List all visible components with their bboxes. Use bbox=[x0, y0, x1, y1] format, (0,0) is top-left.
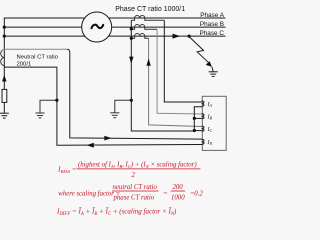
wire resistor to ground bbox=[3, 102, 5, 113]
relay winding IA bbox=[202, 101, 204, 106]
wire ground2 tap bbox=[40, 100, 57, 113]
svg-text:Phase CT ratio 1000/1: Phase CT ratio 1000/1 bbox=[115, 6, 185, 13]
node star junction phase B bbox=[3, 26, 6, 29]
svg-text:where scaling factor =: where scaling factor = bbox=[58, 191, 120, 198]
wire IN inner from box corner bbox=[67, 49, 202, 139]
wire phase C line bbox=[4, 35, 225, 37]
CT B left tail bbox=[131, 27, 134, 29]
svg-text:0.2: 0.2 bbox=[194, 191, 203, 198]
arrow phase C fault direction bbox=[173, 34, 181, 39]
CT C bumps bbox=[135, 34, 145, 37]
wire CT B secondary to relay bbox=[157, 29, 202, 114]
svg-text:IA: IA bbox=[207, 102, 213, 108]
svg-text:IDIFF = ĪA + ĪB + ĪC + (scalin: IDIFF = ĪA + ĪB + ĪC + (scaling factor ×… bbox=[56, 208, 177, 217]
CT A left tail bbox=[131, 18, 134, 20]
svg-text:IB: IB bbox=[207, 114, 213, 120]
fault bolt to earth bbox=[189, 37, 208, 63]
generator tilde bbox=[92, 25, 104, 28]
arrow IN in right bbox=[104, 136, 111, 141]
arrow common current down bbox=[129, 57, 133, 64]
svg-text:IN: IN bbox=[207, 140, 213, 146]
CT A right tail bbox=[145, 18, 165, 20]
svg-text:Phase B: Phase B bbox=[200, 21, 224, 28]
CT A bumps bbox=[135, 15, 145, 18]
svg-text:IC: IC bbox=[207, 127, 213, 133]
CT B bumps bbox=[135, 25, 145, 28]
svg-text:2: 2 bbox=[132, 172, 136, 179]
wire phase A line bbox=[4, 17, 225, 19]
svg-text:Neutral CT ratio: Neutral CT ratio bbox=[17, 55, 59, 61]
arrow CT C current up bbox=[146, 59, 150, 66]
ground G3 bbox=[110, 113, 119, 118]
node dot IN outer / ground tap bbox=[55, 99, 58, 102]
ground G1 bbox=[0, 113, 9, 118]
formula Ibias bbox=[57, 162, 200, 179]
relay winding IC bbox=[202, 126, 204, 131]
CT C left tail bbox=[131, 36, 134, 38]
wire CT A secondary to relay bbox=[164, 20, 202, 102]
svg-text:1000: 1000 bbox=[171, 194, 185, 201]
wire relay common vertical bbox=[194, 107, 202, 131]
arrow neutral current up bbox=[2, 75, 6, 82]
CT B right tail bbox=[145, 27, 157, 29]
label box Neutral CT ratio bbox=[2, 49, 67, 52]
arrow IN return left bbox=[87, 143, 94, 148]
svg-text:(highest of IA, IB, IC) + (IN: (highest of IA, IB, IC) + (IN × scaling … bbox=[78, 162, 197, 169]
wire IB bottom stub bbox=[194, 117, 202, 119]
resistor NER bbox=[2, 89, 7, 102]
node dot ground3 tap bbox=[130, 99, 133, 102]
formula scaling factor bbox=[58, 184, 203, 201]
svg-text:phase CT ratio: phase CT ratio bbox=[113, 194, 155, 201]
svg-text:Phase C: Phase C bbox=[199, 30, 224, 37]
node dot CT-C tail bbox=[130, 37, 133, 40]
node dot IC common bbox=[193, 129, 196, 132]
wire phase B line bbox=[4, 26, 225, 28]
node star junction phase C bbox=[3, 35, 6, 38]
svg-text:=: = bbox=[163, 191, 168, 198]
svg-text:200: 200 bbox=[173, 184, 184, 191]
svg-text:Phase A: Phase A bbox=[200, 12, 225, 19]
wire generator star-point vertical left bbox=[3, 18, 5, 50]
wire fault arrow to ground bbox=[212, 67, 213, 72]
formula Idiff bbox=[56, 208, 177, 217]
node dot fault point bbox=[188, 35, 191, 38]
ground G2 bbox=[35, 113, 44, 118]
wire CT common star vertical bbox=[131, 20, 194, 131]
generator G circle bbox=[82, 12, 112, 42]
relay winding IB bbox=[202, 114, 204, 119]
wire neutral conductor through CT bbox=[3, 49, 5, 89]
wire ground3 tap bbox=[115, 100, 132, 113]
node dot IB common bbox=[193, 117, 196, 120]
svg-text:neutral CT ratio: neutral CT ratio bbox=[113, 184, 158, 191]
wire label box bottom / IN outer bbox=[4, 67, 202, 145]
wire CT C secondary to relay bbox=[149, 38, 202, 126]
neutral CT N1 bumps bbox=[1, 49, 5, 65]
CT C right tail bbox=[145, 36, 149, 38]
node dot CT-B tail bbox=[130, 27, 133, 30]
relay winding IN bbox=[202, 139, 204, 144]
wire IC bottom stub bbox=[194, 130, 202, 132]
relay box bbox=[202, 96, 226, 150]
ground G4 fault bbox=[209, 72, 218, 77]
arrow fault to ground bbox=[206, 61, 212, 67]
